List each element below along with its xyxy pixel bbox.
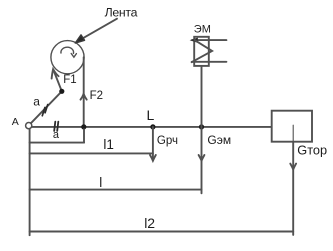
- svg-text:F2: F2: [90, 90, 103, 102]
- dimension line l2: [30, 231, 294, 233]
- Gэм force arrow (line continues to l dimension): [201, 127, 203, 193]
- svg-text:l2: l2: [144, 215, 155, 231]
- Лента pointer filled arrowhead: [75, 35, 84, 43]
- ЭМ top line with arrow: [192, 39, 226, 41]
- node: Gэм junction dot: [199, 124, 204, 129]
- hash marks on inclined arm: [42, 105, 47, 116]
- dimension line l1: [30, 152, 153, 154]
- ЭМ diagonal lines: [192, 40, 213, 62]
- Лента pointer line: [78, 19, 118, 42]
- ЭМ stem wire down to beam: [201, 66, 203, 127]
- svg-text:l: l: [99, 175, 102, 190]
- wire: inclined lever arm a (A to dot): [31, 91, 62, 123]
- left extension line below pivot A: [29, 129, 31, 235]
- svg-text:a: a: [33, 94, 40, 108]
- svg-text:l1: l1: [103, 137, 114, 152]
- hash marks on beam: [54, 122, 58, 131]
- pivot A (open circle): [26, 123, 32, 129]
- wire: F2 rope (pulley right tangent down to beam): [83, 57, 85, 127]
- svg-text:a: a: [53, 129, 60, 141]
- svg-text:Gтор: Gтор: [297, 142, 327, 157]
- extension from F2 junction down to a-dimension: [83, 129, 85, 142]
- wire: F1 rope from dot to pulley tangent: [53, 70, 62, 92]
- counterweight box (Gтор): [272, 111, 312, 142]
- node: Gрч junction dot (point L): [150, 124, 155, 129]
- electromagnet ЭМ rectangle: [194, 37, 209, 66]
- beam (main horizontal lever): [32, 126, 272, 128]
- svg-text:F1: F1: [63, 74, 76, 86]
- pulley (Лента) circle: [51, 41, 84, 74]
- node: rope upper dot: [59, 89, 64, 94]
- dimension line a: [30, 142, 84, 144]
- Gрч force arrow: [152, 127, 154, 161]
- arrowhead F2: [81, 94, 87, 100]
- svg-text:Gэм: Gэм: [207, 133, 231, 147]
- dimension line l: [30, 189, 202, 191]
- Gтор force arrow (line continues to l2 dimension): [292, 125, 294, 235]
- svg-text:ЭМ: ЭМ: [194, 24, 211, 36]
- node: F2 attachment junction dot: [81, 124, 86, 129]
- ЭМ bottom line: [192, 61, 227, 63]
- svg-text:Gрч: Gрч: [157, 135, 178, 147]
- svg-text:A: A: [12, 116, 19, 128]
- svg-text:L: L: [147, 107, 155, 123]
- arrowhead F1: [52, 69, 59, 78]
- svg-text:Лента: Лента: [105, 6, 138, 20]
- rotation direction arrow inside pulley: [61, 47, 74, 53]
